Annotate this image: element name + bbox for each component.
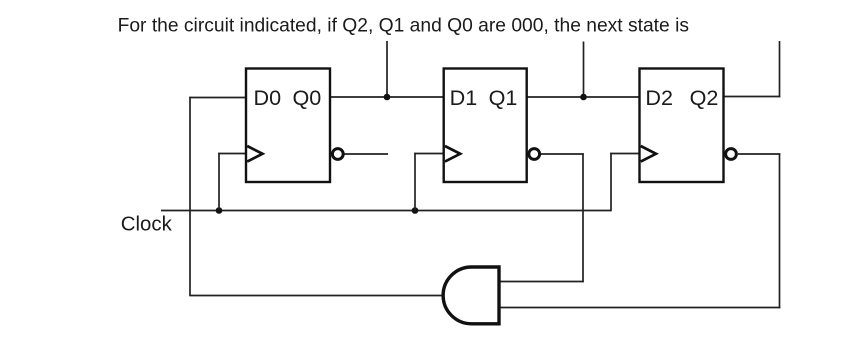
svg-text:D0: D0 [254,85,282,110]
inverted output bubble FF3 [726,149,737,160]
wire: Q2-bar drop to AND input [779,153,781,308]
wire: AND gate bottom input horizontal [499,307,780,309]
flip-flop U2 box [444,69,527,183]
node: junction dot Q0 [384,94,391,101]
node: junction dot clock FF2 [412,207,419,214]
wire: clock horizontal into FF3 [610,153,639,155]
wire: Clock main horizontal [161,210,611,212]
clock triangle FF3 [641,146,656,162]
flip-flop U1 box [246,69,330,183]
wire: D0 input horizontal [189,97,245,99]
clock triangle FF1 [247,146,262,162]
wire: Q0 antenna stub up [386,41,388,97]
wire: Q1-bar horizontal [541,153,584,155]
wire: Q2-bar horizontal [738,153,780,155]
inverted output bubble FF2 [529,149,540,160]
svg-text:D2: D2 [645,85,673,110]
inverted output bubble FF1 [332,149,343,160]
svg-text:Q2: Q2 [690,85,719,110]
node: junction dot clock FF1 [216,207,223,214]
wire: Q1-bar drop to AND input [582,153,584,282]
wire: feedback riser (left vertical) [189,97,191,297]
wire: clock riser to FF1 [218,153,220,211]
wire: clock riser to FF3 [610,153,612,212]
svg-text:For the circuit indicated, if: For the circuit indicated, if Q2, Q1 and… [118,16,689,37]
wire: Q2 output horizontal [724,96,780,98]
svg-text:Q0: Q0 [292,85,321,110]
node: junction dot Q1 [580,94,587,101]
flip-flop U3 box [640,69,724,183]
svg-text:Clock: Clock [121,214,173,236]
wire: Q1 antenna stub up [583,42,585,98]
wire: AND gate output to feedback (bottom horizontal) [190,295,443,297]
AND gate (mirrored, facing left) [443,267,499,324]
wire: AND gate top input horizontal [499,281,584,283]
wire: clock horizontal into FF2 [414,153,443,155]
wire: Q0-bar dangling stub [345,153,389,155]
wire: Q0 to D1 net [331,96,445,98]
wire: Q1 to D2 net [527,96,640,98]
svg-text:D1: D1 [450,85,478,110]
svg-text:Q1: Q1 [489,85,518,110]
wire: Q2 riser up [779,41,781,97]
clock triangle FF2 [445,146,460,162]
wire: clock riser to FF2 [414,153,416,211]
wire: clock horizontal into FF1 [218,153,245,155]
